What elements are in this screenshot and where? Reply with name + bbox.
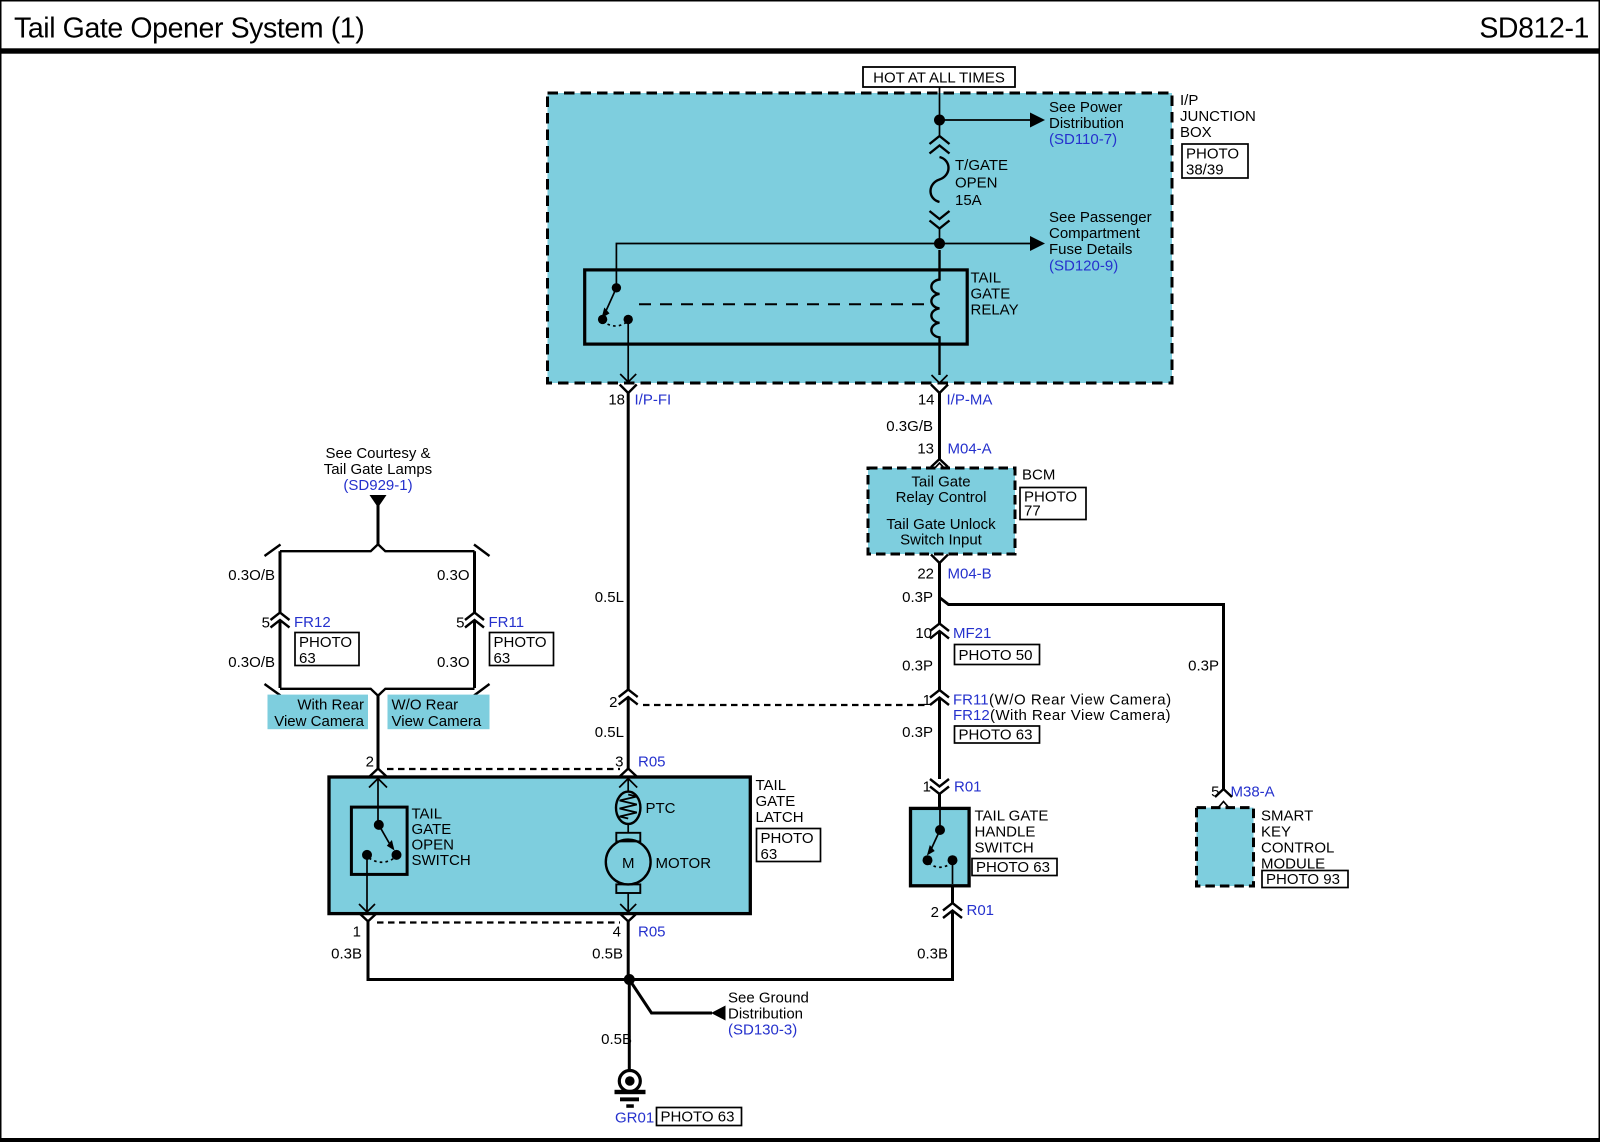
label box PHOTO 77 (1020, 488, 1086, 520)
svg-text:1: 1 (923, 692, 931, 709)
svg-text:FR12: FR12 (953, 707, 990, 724)
wire MF21 down to FR11 (938, 631, 941, 690)
option slash left bottom (265, 684, 281, 696)
motor M (627, 824, 629, 833)
svg-text:2: 2 (366, 754, 374, 771)
svg-text:0.3B: 0.3B (331, 946, 362, 963)
svg-text:LATCH: LATCH (756, 809, 804, 826)
connector 2 R01 inline (943, 903, 962, 911)
wire 0.5B from pin 4 to junction (627, 921, 630, 981)
svg-text:0.5L: 0.5L (595, 724, 624, 741)
svg-text:14: 14 (918, 392, 935, 409)
svg-text:0.3O: 0.3O (437, 567, 470, 584)
svg-text:(SD130-3): (SD130-3) (728, 1022, 797, 1039)
title bar separator (0, 48, 1600, 53)
wire from junction 2 left and down to relay switch (616, 244, 939, 286)
svg-text:See Power: See Power (1049, 99, 1122, 116)
svg-text:0.5B: 0.5B (592, 946, 623, 963)
svg-text:2: 2 (609, 694, 617, 711)
wire fuse to junction 2 (939, 229, 941, 244)
label box PHOTO 38/39 (1182, 144, 1248, 178)
ground bus wires (368, 921, 629, 979)
svg-text:See Passenger: See Passenger (1049, 209, 1152, 226)
label box PHOTO 50 (955, 645, 1040, 665)
svg-text:18: 18 (608, 392, 625, 409)
svg-text:4: 4 (613, 924, 621, 941)
svg-text:R01: R01 (954, 779, 982, 796)
left branch wire 0.3O/B (279, 551, 282, 612)
relay switch contacts (612, 283, 621, 292)
svg-text:See Courtesy &: See Courtesy & (325, 445, 430, 462)
svg-text:TAIL: TAIL (756, 777, 787, 794)
wire down and left to ground junction (629, 911, 952, 980)
label box PHOTO 63 (955, 726, 1040, 743)
svg-text:See Ground: See Ground (728, 990, 809, 1007)
svg-text:BOX: BOX (1180, 124, 1212, 141)
svg-text:KEY: KEY (1261, 824, 1291, 841)
svg-text:PHOTO 63: PHOTO 63 (959, 727, 1033, 744)
svg-text:With Rear: With Rear (297, 697, 364, 714)
svg-text:M04-A: M04-A (948, 441, 992, 458)
wire relay coil to box edge with arrowhead (932, 375, 948, 383)
wire branch to smart key module (940, 598, 1224, 790)
svg-text:View Camera: View Camera (274, 713, 364, 730)
wire open switch down to box edge (366, 855, 368, 912)
fuse T/GATE OPEN 15A (930, 136, 950, 229)
label box PHOTO 63 (757, 829, 821, 862)
svg-text:5: 5 (456, 615, 464, 632)
wire 0.3O/B lower segment (279, 620, 282, 688)
option slash right bottom (474, 684, 490, 696)
svg-text:PHOTO: PHOTO (494, 634, 547, 651)
svg-text:Fuse Details: Fuse Details (1049, 241, 1132, 258)
wire arrow to See Ground Distribution (629, 980, 712, 1014)
connector pin 1 at latch box bottom (360, 913, 377, 921)
wire 0.3O lower segment (473, 620, 476, 688)
svg-text:TAIL: TAIL (412, 806, 443, 823)
PTC thermistor (627, 779, 629, 792)
svg-text:3: 3 (615, 754, 623, 771)
svg-text:63: 63 (299, 650, 316, 667)
option slash left (265, 545, 281, 557)
label box PHOTO 63 (972, 859, 1057, 876)
svg-text:TAIL GATE: TAIL GATE (975, 808, 1049, 825)
svg-text:M38-A: M38-A (1231, 784, 1275, 801)
tail gate latch box (329, 777, 750, 914)
svg-text:View Camera: View Camera (392, 713, 482, 730)
svg-text:MOTOR: MOTOR (656, 855, 712, 872)
svg-text:0.3P: 0.3P (1188, 658, 1219, 675)
svg-text:GATE: GATE (412, 821, 452, 838)
svg-text:CONTROL: CONTROL (1261, 840, 1334, 857)
svg-text:I/P-FI: I/P-FI (635, 392, 672, 409)
connector 14 I/P-MA at box edge (931, 385, 948, 394)
svg-text:FR11: FR11 (953, 692, 989, 709)
node: power junction 2 (934, 238, 945, 249)
wire 0.5L lower segment (627, 697, 630, 769)
tail gate handle switch box (911, 808, 970, 885)
svg-text:(With Rear View Camera): (With Rear View Camera) (990, 707, 1171, 724)
wire down to ground (628, 980, 631, 1072)
svg-text:GR01: GR01 (615, 1110, 654, 1127)
svg-text:0.3B: 0.3B (917, 946, 948, 963)
connector 22 M04-B at BCM bottom edge (931, 555, 948, 564)
connector 18 I/P-FI at box edge (620, 385, 637, 394)
connector pin 4 R05 at latch box bottom (620, 913, 637, 921)
svg-text:Distribution: Distribution (1049, 115, 1124, 132)
wire relay switch output down to box edge (627, 319, 629, 382)
merge shoulders (280, 689, 475, 696)
wire down from triangle (377, 505, 380, 545)
svg-text:0.3O/B: 0.3O/B (228, 567, 275, 584)
svg-text:0.3O: 0.3O (437, 654, 470, 671)
wire FR11 down to R01 (938, 698, 941, 780)
svg-text:63: 63 (494, 650, 511, 667)
svg-text:1: 1 (923, 779, 931, 796)
label box PHOTO 63 (657, 1108, 742, 1126)
node ground junction (624, 974, 635, 985)
svg-text:Tail Gate Lamps: Tail Gate Lamps (324, 461, 432, 478)
right branch wire 0.3O (473, 551, 476, 612)
svg-text:HANDLE: HANDLE (975, 824, 1036, 841)
svg-text:M04-B: M04-B (948, 566, 992, 583)
label box PHOTO 93 (1262, 871, 1348, 888)
svg-text:PHOTO: PHOTO (761, 830, 814, 847)
relay coil (931, 250, 939, 375)
svg-text:GATE: GATE (971, 286, 1011, 303)
connector pin 2 at open switch box edge (370, 769, 387, 777)
wire arrow to See Passenger Compartment Fuse Details (940, 243, 1032, 245)
svg-text:I/P-MA: I/P-MA (947, 392, 993, 409)
connector pin 3 at latch box edge (620, 769, 637, 777)
wire merge down to switch pin 2 (377, 695, 380, 769)
relay throw dotted arc (603, 321, 629, 326)
svg-text:0.3P: 0.3P (902, 658, 933, 675)
option slash right (474, 545, 490, 557)
svg-text:(W/O Rear View Camera): (W/O Rear View Camera) (989, 692, 1172, 709)
label box PHOTO 63 (490, 633, 554, 666)
svg-text:(SD110-7): (SD110-7) (1049, 131, 1117, 148)
svg-text:0.3P: 0.3P (902, 724, 933, 741)
svg-text:38/39: 38/39 (1186, 162, 1224, 179)
svg-text:13: 13 (917, 441, 934, 458)
open switch contacts (377, 779, 379, 824)
svg-text:PHOTO: PHOTO (1186, 146, 1239, 163)
svg-text:PHOTO 93: PHOTO 93 (1266, 871, 1340, 888)
connector 10 MF21 inline (930, 624, 949, 632)
wire M04-B down (938, 563, 941, 624)
connector pin 2 inner chevron (369, 779, 387, 788)
svg-text:(SD120-9): (SD120-9) (1049, 258, 1118, 275)
svg-text:Compartment: Compartment (1049, 225, 1141, 242)
svg-text:Tail Gate Unlock: Tail Gate Unlock (886, 516, 996, 533)
svg-text:JUNCTION: JUNCTION (1180, 108, 1256, 125)
connector pin 3 inner chevron (619, 779, 637, 788)
svg-text:Tail Gate: Tail Gate (911, 474, 970, 491)
wire I/P-FI down to latch (627, 393, 630, 690)
HOT AT ALL TIMES box (863, 67, 1015, 87)
svg-text:SD812-1: SD812-1 (1479, 13, 1589, 45)
svg-text:10: 10 (915, 625, 932, 642)
svg-text:63: 63 (761, 846, 778, 863)
svg-text:SMART: SMART (1261, 808, 1313, 825)
relay box: tail gate relay (585, 270, 968, 344)
connector 1 FR11/FR12 inline (930, 690, 949, 698)
label W/O Rear View Camera (388, 695, 490, 730)
svg-text:0.3P: 0.3P (902, 589, 933, 606)
connector 5 FR11 inline (465, 613, 484, 621)
svg-text:W/O Rear: W/O Rear (392, 697, 459, 714)
svg-text:I/P: I/P (1180, 92, 1198, 109)
svg-text:FR11: FR11 (489, 614, 525, 631)
svg-text:5: 5 (262, 615, 270, 632)
svg-text:MF21: MF21 (953, 625, 991, 642)
svg-text:OPEN: OPEN (412, 837, 455, 854)
svg-text:0.3G/B: 0.3G/B (886, 418, 933, 435)
svg-text:RELAY: RELAY (971, 302, 1019, 319)
label With Rear View Camera (268, 695, 369, 730)
svg-text:OPEN: OPEN (955, 175, 998, 192)
svg-text:GATE: GATE (756, 793, 796, 810)
svg-text:Tail Gate Opener System (1): Tail Gate Opener System (1) (14, 13, 364, 45)
svg-text:R05: R05 (638, 924, 666, 941)
svg-text:0.5B: 0.5B (601, 1031, 632, 1048)
wire motor down to box edge (627, 893, 629, 912)
wire I/P-MA down to BCM (938, 393, 941, 459)
svg-text:2: 2 (931, 904, 939, 921)
svg-text:T/GATE: T/GATE (955, 157, 1008, 174)
dashed link line to connector 2 (643, 704, 928, 706)
wire handle switch down (951, 886, 954, 903)
svg-text:PHOTO 63: PHOTO 63 (661, 1109, 735, 1126)
connector 5 FR12 inline (271, 613, 290, 621)
svg-text:PHOTO: PHOTO (299, 634, 352, 651)
svg-text:(SD929-1): (SD929-1) (343, 477, 412, 494)
wire from HOT box to junction (939, 87, 941, 135)
svg-text:R01: R01 (967, 902, 995, 919)
svg-text:M: M (622, 855, 635, 872)
wire arrow to See Power Distribution (940, 119, 1032, 121)
svg-text:PTC: PTC (646, 800, 676, 817)
svg-text:1: 1 (353, 924, 361, 941)
wire R01 to handle switch box (938, 794, 941, 809)
svg-text:FR12: FR12 (294, 614, 331, 631)
svg-text:22: 22 (917, 566, 934, 583)
svg-text:PHOTO 63: PHOTO 63 (976, 859, 1050, 876)
svg-text:15A: 15A (955, 192, 982, 209)
svg-text:SWITCH: SWITCH (975, 840, 1034, 857)
svg-text:HOT AT ALL TIMES: HOT AT ALL TIMES (873, 70, 1005, 87)
triangle arrow from courtesy lamps (370, 495, 387, 508)
svg-text:77: 77 (1024, 503, 1041, 520)
svg-text:R05: R05 (638, 754, 666, 771)
BCM box (868, 468, 1015, 554)
smart key control module box (1197, 808, 1254, 886)
connector 2 inline on I/P-FI wire (619, 690, 638, 698)
dashed link R05 pins 1-4 (377, 921, 620, 923)
svg-text:SWITCH: SWITCH (412, 852, 471, 869)
svg-text:Relay Control: Relay Control (896, 489, 987, 506)
tail gate open switch inner box (351, 807, 407, 874)
label box PHOTO 63 (295, 633, 359, 666)
node: power junction 1 (934, 115, 945, 126)
svg-text:BCM: BCM (1022, 467, 1055, 484)
relay moving contact arm (606, 288, 617, 312)
dashed link R05 pins 2-3 (387, 768, 620, 770)
handle switch contacts (939, 810, 941, 829)
ground symbol GR01 (619, 1071, 640, 1092)
svg-text:Distribution: Distribution (728, 1006, 803, 1023)
I/P junction box (cyan dashed) (548, 93, 1173, 383)
svg-text:Switch Input: Switch Input (900, 532, 983, 549)
svg-text:0.3O/B: 0.3O/B (228, 654, 275, 671)
svg-text:TAIL: TAIL (971, 270, 1002, 287)
svg-text:5: 5 (1211, 784, 1219, 801)
svg-text:PHOTO 50: PHOTO 50 (959, 647, 1033, 664)
connector 1 R01 inline (930, 779, 949, 787)
svg-text:0.5L: 0.5L (595, 589, 624, 606)
split shoulders (280, 544, 475, 551)
relay control dashed line (639, 303, 928, 305)
